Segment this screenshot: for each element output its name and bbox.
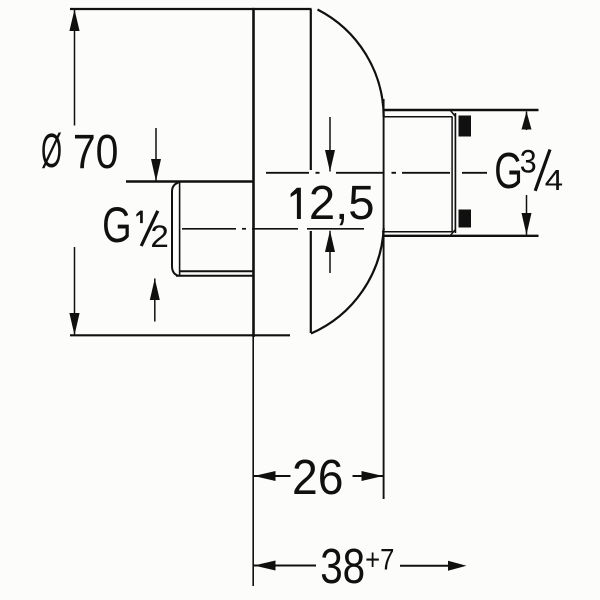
svg-text:+7: +7	[365, 543, 394, 576]
svg-text:38: 38	[320, 538, 365, 594]
svg-text:4: 4	[545, 164, 563, 197]
svg-text:70: 70	[73, 124, 119, 179]
svg-text:2,5: 2,5	[309, 176, 375, 230]
svg-text:G: G	[102, 198, 131, 253]
svg-text:26: 26	[292, 451, 343, 505]
svg-text:G: G	[494, 143, 523, 199]
svg-text:Ø: Ø	[41, 124, 62, 178]
svg-text:3: 3	[520, 144, 537, 180]
